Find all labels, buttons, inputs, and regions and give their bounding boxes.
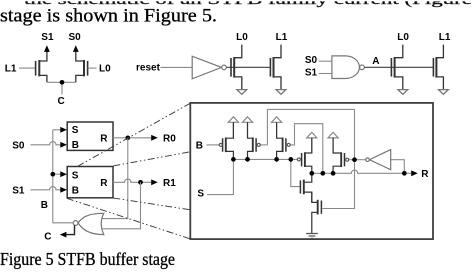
- svg-text:L0: L0: [236, 32, 248, 43]
- wire L1 gate lead: [19, 67, 36, 69]
- wire feedback vertical lower + N2 gate: [323, 162, 355, 209]
- wire R1 output with hop: [113, 179, 152, 182]
- wire C output bend: [66, 225, 74, 234]
- wire R0 output: [113, 137, 152, 139]
- arrow R0: [151, 135, 158, 141]
- arrow R: [411, 170, 418, 176]
- transistor P1: [223, 122, 234, 159]
- transistor N2: [312, 192, 322, 233]
- vdd T2: [247, 122, 249, 138]
- svg-text:reset: reset: [136, 63, 161, 74]
- boundary rectangle: [190, 103, 433, 239]
- wire zoom line 4: [67, 198, 191, 239]
- svg-text:R: R: [421, 169, 429, 180]
- inverter (reset): [192, 56, 221, 79]
- wire top feedback (P2 gate to inverter out): [267, 109, 354, 157]
- arrow B input box0: [60, 142, 67, 148]
- node dots rail1: [231, 157, 236, 162]
- wire S1 input with hop: [31, 187, 61, 190]
- node C junction: [60, 80, 65, 85]
- transistor MR0: [231, 45, 242, 90]
- wire zoom line 1: [78, 103, 191, 166]
- wire N1 gate from rail1: [291, 159, 301, 186]
- wire inverter input from R node: [391, 160, 405, 174]
- wire B input: [207, 144, 220, 146]
- svg-text:S0: S0: [69, 32, 82, 43]
- svg-text:S1: S1: [12, 185, 25, 196]
- svg-text:B: B: [72, 186, 79, 197]
- arrow R1: [151, 179, 158, 185]
- wire P4 gate stub: [349, 159, 355, 161]
- svg-text:stage is shown in Figure 5.: stage is shown in Figure 5.: [0, 5, 217, 26]
- svg-text:S0: S0: [305, 55, 318, 66]
- svg-text:C: C: [44, 231, 51, 242]
- node R0 junction: [125, 135, 130, 140]
- arrow S1: [44, 45, 50, 52]
- arrow S input box0: [60, 127, 67, 133]
- svg-text:S0: S0: [12, 140, 25, 151]
- svg-text:C: C: [58, 96, 65, 107]
- transistor ML1: [36, 51, 47, 82]
- wire rail2 (node X to R) with hop: [312, 170, 405, 173]
- node R1 junction: [138, 180, 143, 185]
- svg-text:Figure 5 STFB buffer stage: Figure 5 STFB buffer stage: [0, 249, 175, 269]
- wire reset input: [161, 66, 193, 68]
- wire zoom line 3: [113, 198, 190, 210]
- wire common source to node C: [47, 82, 76, 94]
- arrow S input box1: [60, 171, 67, 177]
- svg-text:L1: L1: [5, 63, 17, 74]
- SR cell box0: [67, 122, 113, 150]
- svg-text:S: S: [197, 189, 204, 200]
- svg-text:L0: L0: [397, 32, 409, 43]
- arrow B input box1: [60, 187, 67, 193]
- svg-text:S: S: [72, 125, 79, 136]
- svg-text:L0: L0: [99, 63, 111, 74]
- transistor P3: [277, 122, 286, 159]
- wire P2 gate stub: [260, 144, 267, 146]
- node dots rail2: [309, 171, 314, 176]
- NOR gate U3 (points left): [78, 213, 104, 234]
- svg-text:R1: R1: [163, 178, 176, 189]
- arrow S0: [73, 45, 79, 52]
- wire B vertical (net B): [53, 130, 73, 223]
- wire feedback to inverter bubble: [355, 159, 366, 161]
- nand gate U2: [332, 56, 360, 79]
- wire staple (P3 gate to node X): [290, 124, 323, 174]
- transistor P2: [248, 122, 257, 159]
- svg-text:R0: R0: [163, 133, 176, 144]
- transistor N1: [300, 173, 311, 202]
- vdd T5: [311, 138, 313, 153]
- svg-text:R: R: [100, 133, 108, 144]
- svg-text:L1: L1: [276, 32, 288, 43]
- ground MA1: [439, 90, 449, 95]
- wire zoom line 2: [113, 152, 190, 166]
- svg-text:B: B: [196, 140, 203, 151]
- svg-text:A: A: [372, 56, 379, 67]
- transistor MR1: [270, 45, 281, 90]
- ground MA0: [398, 90, 408, 95]
- svg-text:S1: S1: [41, 32, 54, 43]
- ground (inner): [306, 234, 318, 239]
- svg-text:S1: S1: [305, 67, 318, 78]
- node dot feedback: [352, 157, 357, 162]
- vdd T4: [332, 138, 334, 153]
- node B junction on cell1 S: [50, 172, 55, 177]
- wire node A to gates: [364, 66, 433, 68]
- transistor P4: [333, 138, 344, 173]
- wire R1 feedback down to NOR input2: [103, 182, 141, 229]
- arrow C: [60, 232, 67, 238]
- vdd T3: [276, 122, 278, 138]
- svg-text:S: S: [72, 170, 79, 181]
- wire S1 input: [319, 73, 332, 75]
- wire S input: [207, 159, 234, 194]
- wire inverter out to gates: [226, 66, 270, 68]
- wire rail1 (node B chain): [233, 158, 297, 160]
- vdd T1: [232, 122, 234, 138]
- wire R output: [404, 172, 411, 174]
- svg-text:R: R: [100, 178, 108, 189]
- transistor ML0: [76, 51, 88, 82]
- transistor P5 (keeper): [302, 138, 312, 173]
- ground MR1: [276, 90, 286, 95]
- ground MR0: [237, 90, 247, 95]
- wire R0 feedback down to NOR input1: [102, 138, 128, 219]
- wire L0 gate lead: [88, 67, 97, 69]
- transistor MA0: [391, 45, 402, 90]
- svg-text:B: B: [41, 200, 48, 211]
- SR cell box1: [67, 167, 113, 198]
- transistor MA1: [433, 45, 443, 90]
- svg-text:B: B: [72, 140, 79, 151]
- wire S0 input with hop: [31, 142, 61, 145]
- wire S0 input: [319, 60, 332, 62]
- svg-text:L1: L1: [439, 32, 451, 43]
- inverter U4 (points left): [369, 150, 390, 170]
- wire branch to S of cell1: [53, 173, 61, 175]
